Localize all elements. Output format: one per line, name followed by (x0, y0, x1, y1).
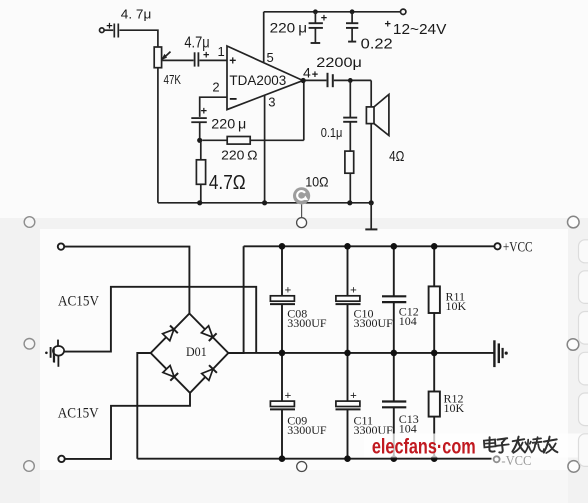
svg-text:0.22: 0.22 (361, 37, 393, 53)
wire feedback up to output node (303, 81, 305, 141)
junction dots ground rail (197, 200, 374, 205)
svg-text:+: + (385, 19, 391, 31)
Chinese caption dian zi fa shao you (484, 437, 558, 453)
svg-text:AC15V: AC15V (58, 294, 99, 310)
test point terminal below minus rail (297, 462, 307, 472)
svg-text:4Ω: 4Ω (389, 149, 404, 165)
node D junction speaker branch (348, 78, 353, 83)
center tap terminal with earth scribble (45, 340, 64, 367)
svg-text:+: + (285, 283, 292, 297)
svg-text:2200μ: 2200μ (316, 54, 362, 70)
svg-text:10Ω: 10Ω (305, 173, 328, 189)
junction dots plus rail (279, 243, 438, 250)
svg-text:+: + (201, 106, 207, 118)
elecfans.com logo (372, 436, 476, 459)
svg-text:4.7μ: 4.7μ (184, 34, 209, 51)
op-amp U1 TDA2003 (227, 46, 303, 110)
node A junction (197, 138, 202, 143)
output node junction (301, 78, 306, 83)
input terminal J1 (100, 28, 105, 33)
svg-text:3300UF: 3300UF (287, 423, 327, 437)
svg-text:TDA2003: TDA2003 (229, 73, 286, 89)
capacitor 4.7u to pin1 (184, 34, 209, 66)
wire input cap to pot (119, 30, 157, 47)
capacitor 0.1u (321, 80, 358, 151)
resistor R11 10K (429, 246, 467, 353)
svg-text:220 μ: 220 μ (270, 19, 308, 35)
node C junction 0.22 (350, 9, 355, 14)
svg-text:2: 2 (212, 79, 219, 94)
wire C3 to node A (199, 122, 201, 140)
capacitor 220u pin2 (191, 106, 246, 132)
ground symbol top circuit (365, 203, 377, 230)
svg-text:+: + (285, 388, 292, 402)
svg-text:AC15V: AC15V (58, 405, 99, 421)
supply terminal 12-24V (385, 9, 447, 38)
right edge tabs (579, 240, 588, 467)
capacitor C11 3300UF (336, 353, 394, 459)
wire pot bottom down to ground rail (157, 68, 159, 203)
top schematic paper background (0, 0, 588, 218)
svg-text:4.7Ω: 4.7Ω (209, 172, 246, 194)
capacitor C12 104 (382, 246, 419, 353)
chassis ground symbol right (494, 340, 507, 367)
page hole circles left (24, 217, 35, 472)
svg-text:+: + (350, 283, 357, 297)
svg-text:+VCC: +VCC (503, 240, 533, 256)
capacitor 0.22 (346, 12, 393, 53)
minus VCC rail (137, 458, 491, 460)
label AC15V top (58, 294, 99, 310)
wire pin 3 to ground rail (264, 96, 266, 203)
speaker 4 ohm (366, 80, 404, 202)
resistor 4.7 ohm (196, 140, 245, 203)
ground rail top circuit (158, 202, 371, 204)
white watermark band (364, 434, 588, 458)
svg-text:3300UF: 3300UF (287, 316, 327, 330)
plus VCC terminal (494, 240, 532, 256)
svg-text:104: 104 (399, 422, 417, 436)
page hole circles right (567, 216, 579, 472)
svg-text:12~24V: 12~24V (393, 22, 447, 38)
diode bottom-left (163, 366, 178, 381)
wire pin 2 to C3 (200, 97, 227, 117)
node B junction 220u (313, 9, 318, 14)
svg-text:104: 104 (399, 314, 417, 328)
wire pin 5 to supply rail (263, 12, 265, 62)
svg-text:1: 1 (218, 44, 225, 59)
svg-text:47K: 47K (164, 73, 182, 87)
label AC15V bottom (58, 405, 99, 421)
svg-text:0.1μ: 0.1μ (321, 125, 343, 140)
resistor 220 ohm feedback (202, 137, 303, 163)
svg-text:+: + (312, 69, 318, 81)
minus VCC terminal (494, 454, 532, 469)
wire bridge right vertex to plus rail riser (228, 246, 243, 353)
svg-text:220 μ: 220 μ (211, 115, 246, 131)
bridge rectifier D01 outline (151, 314, 229, 393)
capacitor C09 3300UF (270, 353, 327, 459)
pin 5 label (267, 50, 274, 65)
svg-text:4: 4 (303, 64, 311, 80)
svg-text:D01: D01 (186, 344, 207, 359)
supply rail top (264, 11, 401, 13)
pin 4 label (303, 64, 311, 80)
svg-text:+: + (106, 20, 112, 32)
capacitor C10 3300UF (336, 246, 394, 353)
wire pot wiper to C2 (163, 59, 194, 61)
svg-text:+: + (229, 54, 236, 68)
svg-text:220 Ω: 220 Ω (221, 147, 258, 162)
svg-text:-VCC: -VCC (501, 454, 531, 469)
svg-text:4. 7μ: 4. 7μ (121, 7, 152, 22)
junction dots middle rail (279, 350, 438, 357)
resistor R12 10K (429, 353, 465, 459)
plus VCC rail (244, 245, 495, 247)
capacitor C13 104 (382, 353, 419, 459)
watermark refresh badge (293, 187, 310, 204)
svg-text:elecfans·com: elecfans·com (372, 436, 476, 459)
potentiometer 47K (154, 47, 181, 87)
test point terminal below ground rail (297, 204, 307, 227)
svg-text:10K: 10K (444, 401, 465, 415)
svg-text:5: 5 (267, 50, 274, 65)
diode top-right (201, 326, 216, 341)
junction dots minus rail (279, 455, 438, 462)
AC input terminal bottom (58, 456, 64, 462)
bottom schematic paper background (40, 229, 568, 470)
pin 2 label (212, 79, 219, 94)
wire center tap to middle rail (64, 287, 256, 353)
middle ground rail (228, 352, 494, 354)
capacitor 2200u output (306, 54, 372, 87)
pin 1 label (218, 44, 225, 59)
svg-text:+: + (350, 388, 357, 402)
diode top-left (163, 326, 178, 341)
svg-text:3: 3 (268, 94, 275, 109)
capacitor C08 3300UF (270, 246, 327, 353)
AC input terminal top (58, 243, 64, 249)
wire C2 to pin 1 (199, 59, 227, 61)
wire AC top to bridge top vertex (64, 247, 189, 314)
capacitor 220u supply (270, 12, 328, 43)
svg-text:10K: 10K (446, 299, 467, 313)
diode bottom-right (202, 365, 217, 380)
capacitor 4.7u input (104, 7, 151, 38)
wire bridge left vertex to minus rail (137, 353, 150, 459)
svg-text:+: + (321, 13, 327, 25)
resistor 10 ohm (305, 151, 353, 203)
svg-text:3300UF: 3300UF (354, 316, 394, 330)
pin 3 label (268, 94, 275, 109)
wire AC bottom to bridge bottom vertex (65, 393, 190, 459)
